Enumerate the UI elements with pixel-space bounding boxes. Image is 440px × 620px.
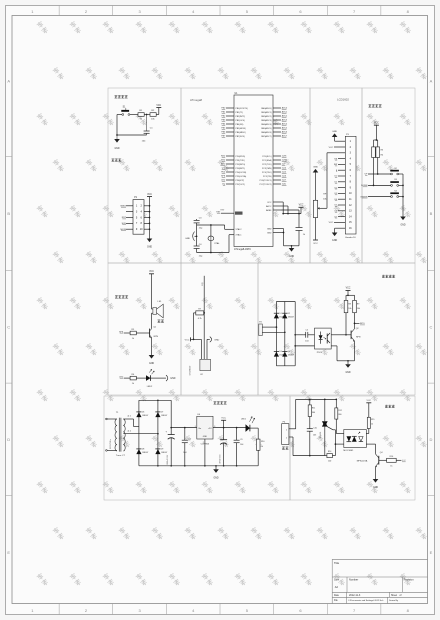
wire/net: LED input [124,377,130,379]
svg-text:GND: GND [203,436,208,438]
transformer T1 [118,418,120,452]
resistor R10 1k [256,439,260,450]
wire: R9 to collector / INT0 tap [354,313,356,324]
svg-text:1k: 1k [371,424,373,426]
ground (ISP) [147,239,153,243]
svg-text:D4: D4 [288,351,290,353]
svg-text:Title: Title [334,561,340,565]
bridge rails [276,301,295,303]
wires: MCU left pin stubs PB0-PB7 [226,107,234,109]
svg-text:D7: D7 [161,412,163,414]
svg-text:1N4007: 1N4007 [161,415,167,417]
resistor R2 [150,113,156,117]
wire: emitter to GND [354,341,356,361]
svg-text:1k: 1k [261,446,263,448]
svg-text:C: C [7,324,10,329]
svg-text:PD5(OC1A): PD5(OC1A) [236,175,247,178]
svg-text:1N4007: 1N4007 [288,316,294,318]
svg-text:R11: R11 [312,408,315,410]
ground (MCU) [291,246,293,248]
ground port (DS18B20) [206,339,208,359]
svg-text:C9: C9 [240,439,242,441]
svg-text:PA5(ADC5): PA5(ADC5) [261,127,272,130]
svg-text:220V/50Hz: 220V/50Hz [110,439,112,449]
svg-text:MPS2222A: MPS2222A [357,459,368,462]
resistor R11 snubber [309,399,311,405]
svg-text:VCC: VCC [156,105,161,107]
svg-text:PB1(T1): PB1(T1) [236,112,244,114]
power VCC (ISP) [147,196,152,198]
svg-text:GND: GND [313,166,318,168]
resistor R1 [138,113,144,117]
wire: UP to GND bus [399,173,403,175]
svg-text:1N4007: 1N4007 [288,355,294,357]
section label: reset circuit [115,95,118,98]
diode D7 1N4007 [155,412,160,417]
wire: key row UP [368,173,391,175]
resistor R6 [130,376,136,380]
push button S1 [122,114,124,116]
wire: triac gate [327,427,333,430]
pin label RESET inverted [235,212,243,215]
svg-text:PB0(XCK/T0): PB0(XCK/T0) [236,108,248,110]
op-amp U1 ATmega8 MCU body [234,95,273,247]
wire: load pin1 up to top rail [289,428,296,430]
ground (crystal) [195,235,197,237]
capacitor C7 104 [184,428,186,441]
svg-text:PB4(SS): PB4(SS) [236,124,244,126]
wire: R8 to base [345,313,347,335]
svg-text:PA3(ADC3): PA3(ADC3) [261,119,272,122]
svg-text:BTA16: BTA16 [319,431,322,438]
svg-text:GND: GND [373,487,378,489]
wire: speaker to Q1 collector [151,313,153,327]
wire/net: SPK input [124,332,130,334]
svg-text:E: E [430,550,433,555]
svg-text:R15: R15 [371,419,374,421]
wire: reset top rail [117,114,122,116]
ruler ticks top/bottom [58,6,60,16]
svg-text:+5V: +5V [208,428,212,430]
section box: LCD [310,88,362,263]
svg-text:D3: D3 [279,351,281,353]
capacitor C2 AREF [298,214,300,228]
wire: secondary center tap dc2 [123,433,158,435]
svg-text:R12: R12 [338,410,341,412]
svg-text:GND: GND [289,256,294,258]
wire: rectifier out to regulator [171,427,197,429]
LED D5 [146,375,151,381]
wires: pullup split [374,139,378,141]
speaker LS1 [152,308,153,310]
svg-text:PD2(INT0): PD2(INT0) [236,164,246,166]
ground (keys) [400,217,406,221]
svg-text:D: D [430,437,433,442]
svg-text:VCC: VCC [147,194,152,196]
wire: MOC to Q4 collector [366,443,375,445]
wires: ISP right pin stubs and bus [144,205,150,207]
svg-text:PC4(TDO): PC4(TDO) [262,172,272,174]
potentiometer RP1 [315,173,317,201]
svg-text:PB2(INT2): PB2(INT2) [236,116,246,118]
section label: triac [385,405,388,408]
wire: reset left/bottom [116,115,118,136]
section box: keys [362,88,415,263]
push button S2 [391,173,393,175]
wires: MCU left pin stubs PD0-PD7 [226,155,234,157]
wires: pullups to key rows [373,158,375,186]
svg-text:2: 2 [286,438,287,440]
ruler ticks left/right [6,156,13,158]
push button S4 [391,196,393,198]
transistor Q4 MPS2222A [378,456,380,465]
svg-text:A: A [430,79,433,84]
wire: keys GND bus [402,174,404,217]
svg-text:VCC: VCC [149,271,154,273]
svg-text:NPN: NPN [154,336,159,338]
svg-text:VCC: VCC [267,202,272,204]
svg-text:XTAL: XTAL [214,242,220,245]
ground (pot top) [313,169,319,173]
svg-text:GND: GND [170,378,175,380]
resistor R8 10k [344,300,348,312]
wire: pin3 contrast to pot wiper [327,152,338,154]
svg-text:B: B [430,211,433,216]
resistor R15 [367,417,370,428]
svg-text:R16: R16 [390,456,393,458]
svg-text:360: 360 [338,414,341,416]
svg-text:PB7(SCK): PB7(SCK) [236,136,246,138]
connector P2 AC input [259,324,263,336]
wire: R1 to R2 with junction [144,114,150,116]
svg-text:C10: C10 [313,427,316,429]
svg-text:PB3(OC0): PB3(OC0) [236,120,246,122]
svg-text:D9: D9 [161,449,163,451]
wires: LCD pin stubs [338,140,345,142]
diode D3 1N4007 [274,352,279,357]
wire: AC1 [262,326,276,328]
resistor R12 MOC drive [335,399,337,408]
resistor R16 base [379,459,387,461]
section box: DS18B20 [181,263,258,395]
bridge rails (power) [138,400,140,466]
wire: power GND rail [139,465,258,467]
capacitor C8 470uF electrolytic [223,428,225,440]
svg-text:VCC: VCC [299,204,304,206]
svg-text:D1: D1 [279,313,281,315]
svg-text:PD6(ICP): PD6(ICP) [236,180,245,182]
svg-text:GND: GND [332,131,337,133]
power VCC (pot bottom) [313,239,318,241]
ground (power) [215,466,217,470]
svg-text:Date: Date [334,594,340,597]
svg-text:Revision: Revision [404,578,415,582]
section box: MCU [181,88,310,263]
svg-text:E: E [7,550,10,555]
svg-text:PD1(TXD): PD1(TXD) [236,160,246,162]
svg-text:104: 104 [240,444,243,446]
svg-text:C:\Documents and Settings\.201: C:\Documents and Settings\.2012.Sch [348,599,384,602]
svg-text:2012-11-3: 2012-11-3 [349,594,361,597]
svg-text:PA1(ADC1): PA1(ADC1) [261,111,272,114]
diode D9 1N4007 [155,449,160,454]
svg-text:DQ: DQ [202,282,204,286]
svg-text:NPN: NPN [356,337,361,339]
svg-text:1k: 1k [390,465,392,467]
svg-text:PA6(ADC6): PA6(ADC6) [261,131,272,134]
resistor R4 pullup [376,147,380,158]
ground (reset) [116,135,118,139]
svg-text:PD7(OC2): PD7(OC2) [236,184,246,186]
svg-text:PC1(SDA): PC1(SDA) [262,159,272,162]
wire: R7 to VCC rail [194,312,196,314]
capacitor C9 104 [236,428,238,441]
wires: VCC to R8 R9 [346,294,355,296]
diode D8 1N4007 [136,449,141,454]
svg-text:D8: D8 [142,449,144,451]
section label: sound-light alarm [115,295,118,298]
transistor Q2 NPN [350,331,352,340]
capacitor C3 22p [196,219,198,220]
svg-text:CW7805: CW7805 [201,444,210,446]
ground (LCD pin16) [335,227,338,229]
section label: key circuit [369,104,372,107]
capacitor C4 22p [196,225,198,246]
svg-text:PC6(TOSC1): PC6(TOSC1) [260,180,272,182]
svg-text:PD0(RXD): PD0(RXD) [236,156,246,158]
svg-text:VCC: VCC [366,400,371,402]
sensor U2 DS18B20 [200,359,211,370]
svg-text:GND: GND [267,232,272,234]
svg-text:2: 2 [203,442,204,444]
svg-text:1N4007: 1N4007 [142,415,148,417]
svg-text:GND: GND [267,228,272,230]
wire: VCC rail junctions [283,213,301,215]
wire: secondary tap dc1 [123,418,133,420]
svg-text:360: 360 [312,412,315,414]
wires: MCU right pin stubs PC [273,155,281,157]
wire: key row ENTER [368,196,391,198]
section box: zero-cross [258,263,415,395]
diode D6 1N4007 [136,412,141,417]
svg-text:LED2: LED2 [147,386,153,388]
resistor R5 base [136,332,149,334]
capacitor C5 104 [305,332,307,338]
svg-text:R10: R10 [261,441,264,443]
svg-text:D2: D2 [288,313,290,315]
diode D4 1N4007 [282,352,287,357]
svg-text:ATmega8: ATmega8 [190,98,202,102]
svg-text:ATmega8-16PC: ATmega8-16PC [234,248,251,251]
svg-text:103: 103 [313,435,316,437]
section label: zero-cross detect [382,275,385,278]
svg-text:PC3(TMS): PC3(TMS) [262,168,272,170]
wire: VCC row to sensor [194,338,202,340]
push button S3 [391,185,393,187]
section box: triac output [290,396,415,500]
LED D10 power indicator [246,424,250,432]
svg-text:Header 16: Header 16 [345,236,356,239]
wire: DOWN to GND bus [399,184,403,186]
wire: key row DOWN [368,184,391,186]
section label: power circuit [214,401,217,404]
svg-text:PC2(TCK): PC2(TCK) [262,164,272,166]
wire: LED to GND port [151,377,167,379]
svg-text:PA4(ADC4): PA4(ADC4) [261,123,272,126]
wire: button to R1 [130,114,138,116]
wires: ISP left pin stubs [126,205,133,207]
power VCC (reset) [156,107,161,109]
svg-text:Number: Number [349,578,358,582]
optocoupler U5 MOC3061 [344,430,367,448]
resistor R7 pullup 4.7k [196,311,204,315]
svg-text:GND: GND [213,477,218,479]
ground (Q4 emitter) [375,467,377,480]
svg-text:1: 1 [286,429,287,431]
svg-text:dc 1: dc 1 [128,416,132,418]
svg-text:R8: R8 [348,303,350,305]
svg-text:GND: GND [332,240,337,242]
svg-text:A: A [7,79,10,84]
diode D1 1N4007 [274,313,279,318]
svg-text:1: 1 [195,426,196,428]
crystal Y1 XTAL [210,225,212,253]
svg-text:1000uF/25V: 1000uF/25V [167,454,169,465]
svg-text:1N4007: 1N4007 [142,452,148,454]
svg-text:VCC: VCC [313,243,318,245]
svg-text:VCC: VCC [346,288,351,290]
svg-text:GND: GND [214,339,219,341]
wire: RST pin [221,212,234,214]
svg-text:Trans CT: Trans CT [116,454,126,457]
connector P3 Header16 LCD [345,136,356,234]
wire: +5V output rail [213,427,246,429]
svg-text:Drawn By: Drawn By [389,599,399,602]
svg-text:dc 2: dc 2 [128,430,132,432]
wire: regulator GND down [204,439,206,466]
svg-text:VCC: VCC [185,339,190,341]
svg-text:100: 100 [328,460,331,462]
power VCC (LCD pin15) [334,221,338,223]
capacitor C10 snubber 103 [309,417,311,429]
wires: MCU GND pins [273,228,284,230]
svg-text:XTAL2: XTAL2 [236,228,243,231]
diode D2 1N4007 [282,313,287,318]
ground (LCD pin1) [335,140,338,142]
svg-text:D6: D6 [142,412,144,414]
wires: MCU right pin stubs PA [273,107,281,109]
svg-text:DS18B20: DS18B20 [189,365,191,375]
svg-text:PC7(TOSC2): PC7(TOSC2) [260,184,272,186]
wire: R2 to VCC [156,114,159,116]
svg-text:PB5(MOSI): PB5(MOSI) [236,128,247,130]
svg-text:1N4007: 1N4007 [161,452,167,454]
svg-text:VCC: VCC [221,418,226,420]
svg-text:LED1: LED1 [241,419,247,421]
svg-text:Size: Size [334,578,340,582]
svg-text:VCC: VCC [374,122,379,124]
ground port (LED) [166,375,168,381]
svg-text:D: D [7,437,10,442]
svg-text:GND: GND [185,238,190,240]
wire: ENTER to GND bus [399,196,403,198]
connector P1 ISP header 2x5 [133,200,144,235]
svg-text:GND: GND [400,225,405,227]
svg-text:PD3(INT1): PD3(INT1) [236,168,246,170]
crystal circuit wires [197,224,225,226]
connector P4 load [282,424,289,445]
svg-text:GND: GND [114,148,119,150]
svg-text:C: C [430,324,433,329]
svg-text:PC5(TDI): PC5(TDI) [263,176,272,178]
svg-text:10k: 10k [348,308,351,310]
svg-text:R9: R9 [357,303,359,305]
section box: reset + ISP [108,88,181,263]
svg-text:B: B [7,211,10,216]
svg-text:LCD1602: LCD1602 [337,98,349,102]
wire: opto collector to base node [331,334,346,336]
svg-text:VCC: VCC [329,222,334,224]
wire: bridge - to opto pin2 [295,345,314,347]
svg-text:PC0(SCL): PC0(SCL) [262,156,271,158]
svg-text:GND: GND [147,247,152,249]
wire: bridge + to cap [295,334,304,336]
title block [331,559,333,603]
svg-text:XTAL1: XTAL1 [236,234,243,237]
svg-text:GND: GND [345,372,350,374]
triac Q3 BTA16 [324,399,326,421]
wire/net: control C.C [396,459,401,461]
section label: ISP download port [112,159,115,162]
wire: DQ vertical [203,276,205,360]
svg-text:10k: 10k [357,308,360,310]
transistor Q1 NPN [149,329,151,338]
svg-text:PA7(ADC7): PA7(ADC7) [261,135,272,138]
optocoupler U3 P521 [315,328,332,349]
wire: R15 to MOC right pin [368,429,370,434]
svg-text:470uF/25V: 470uF/25V [220,454,222,464]
wires: MCU power pins right [273,201,281,203]
svg-text:C7: C7 [188,439,190,441]
svg-text:P521: P521 [317,352,323,354]
resistor R9 10k [353,300,357,312]
wire: R12 to MOC pin6 [335,419,337,433]
svg-text:R14: R14 [328,451,331,453]
resistor R14 load return 100 [325,455,327,457]
capacitor C1 104 [146,115,148,132]
power VCC (LCD pin2) [334,146,338,148]
svg-text:A2: A2 [335,585,339,589]
svg-text:VCC: VCC [329,147,334,149]
wire: AC2 [262,331,285,333]
svg-text:Sheet: Sheet [391,594,397,597]
svg-text:PB6(MISO): PB6(MISO) [236,132,247,134]
section box: power supply [104,396,290,500]
resistor R3 pullup [372,147,376,158]
wires: AC primary stubs [107,418,117,420]
svg-text:104: 104 [183,452,186,454]
section box: speaker/LED [108,263,181,395]
power VCC (DS18B20) [190,337,192,341]
wire: load pin2 down to bottom rail [289,436,293,438]
wire: LED to R10 [250,427,258,429]
ground (zero-cross) [347,361,349,364]
svg-text:PA0(ADC0): PA0(ADC0) [261,107,272,110]
svg-text:GND: GND [149,363,154,365]
wire: opto emitter to GND rail [331,345,337,347]
capacitor C6 1000uF electrolytic [170,428,172,435]
svg-text:AREF: AREF [266,209,272,212]
